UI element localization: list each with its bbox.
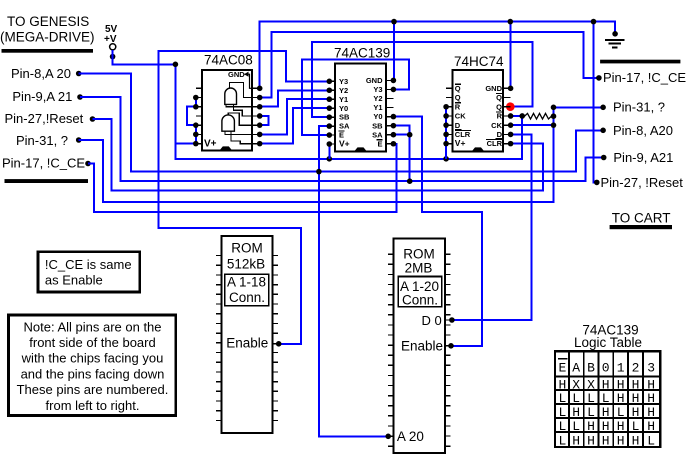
svg-text:H: H [572,433,580,448]
AC08 internal gate2 output wire [228,113,252,125]
wire 139 Y0a to AC08 gate2 inB [262,108,329,143]
svg-text:L: L [572,391,580,406]
node 139 left pin dot [327,141,333,147]
svg-text:X: X [587,377,595,392]
svg-text:Y0: Y0 [339,104,348,113]
svg-text:2MB: 2MB [405,261,433,276]
svg-text:H: H [647,419,655,434]
5V supply terminal circle [110,44,116,50]
node 139 left pin dot [327,87,333,93]
wire bus A20 from Pin-8 [79,74,601,172]
svg-text:R: R [455,102,461,111]
node 139 left pin dot [327,123,333,129]
svg-text:SA: SA [339,122,350,131]
svg-text:H: H [632,377,640,392]
AC08 notch [219,146,232,150]
AC08 internal gate1 inA wire [226,104,252,106]
svg-text:Pin-9, A21: Pin-9, A21 [613,150,673,165]
svg-text:74AC08: 74AC08 [204,53,253,68]
wire AC08 left rows5-7 tie [195,125,197,143]
svg-text:CK: CK [491,121,502,130]
svg-text:H: H [587,433,595,448]
wire 139 SAb join [393,134,409,136]
AC08 internal gate1 output wire [230,82,253,97]
wire 139 Ea from 139 Y3b [302,60,409,135]
wire Pin-31 to right label [554,106,601,108]
node AC08 left pin dot [193,122,199,128]
svg-text:Y0: Y0 [373,112,382,121]
svg-text:H: H [617,433,625,448]
svg-text:V+: V+ [455,138,466,148]
svg-text:E: E [558,360,566,375]
node junction SAb on SBb drop [407,132,413,138]
node AC08 right pin dot [257,86,263,92]
svg-text:front side of the board: front side of the board [29,335,155,350]
AND gate G2 [222,115,235,131]
AC08 internal gate1 inB wire [233,104,252,116]
svg-text:and the pins facing down: and the pins facing down [21,366,165,381]
svg-text:SB: SB [339,113,350,122]
node Pin-31 right dot [600,105,606,111]
svg-text:SB: SB [372,121,383,130]
node AC08 left pin dot [193,132,199,138]
svg-text:GND: GND [228,70,245,79]
74AC139 logic table [555,351,660,447]
ROM2MB D0 stub [445,319,451,321]
svg-text:H: H [572,405,580,420]
svg-text:D: D [455,121,461,130]
svg-text:74AC139: 74AC139 [334,46,390,61]
svg-text:D 0: D 0 [422,313,442,328]
node rail junction at 74AC139 V+ [327,156,333,162]
svg-text:Pin-27,!Reset: Pin-27,!Reset [5,111,84,126]
svg-text:H: H [602,433,610,448]
node ground bus junction cart reset [591,19,597,25]
svg-text:3: 3 [647,360,655,375]
wire bus Pin-31 net [79,107,554,202]
wire HC74 left tie to rail [445,107,447,159]
ground symbol [612,31,618,37]
wire 139 V+ to rail [328,144,330,159]
node HC74 right pin dot [508,141,514,147]
wire 5V drop to rail [113,50,523,159]
svg-text:H: H [617,377,625,392]
svg-text:Q: Q [455,84,461,93]
svg-text:with the chips facing you: with the chips facing you [21,351,164,366]
ROM2MB conn box [398,277,442,307]
node 139 left pin dot [327,114,333,120]
svg-text:Y1: Y1 [339,95,348,104]
svg-text:H: H [587,419,595,434]
svg-text:H: H [602,377,610,392]
node 139 left pin dot [327,96,333,102]
svg-text:512kB: 512kB [227,257,265,272]
node HC74 left pin dot [443,113,449,119]
node 5V T junction [173,62,179,68]
svg-text:from left to right.: from left to right. [46,398,140,413]
svg-text:CK: CK [455,112,466,121]
svg-text:SA: SA [372,130,383,139]
svg-text:Pin-9,A 21: Pin-9,A 21 [12,89,72,104]
svg-text:Y3: Y3 [373,85,382,94]
node AC08 right pin dot [257,95,263,101]
node AC08 right pin dot [257,141,263,147]
svg-text:+V: +V [104,34,117,45]
svg-text:H: H [632,391,640,406]
node AC08 left pin dot [193,141,199,147]
svg-text:L: L [558,405,566,420]
svg-text:A: A [572,360,580,375]
ROM512 conn box [225,274,269,305]
svg-text:H: H [632,405,640,420]
node AC08 right pin dot [257,132,263,138]
svg-text:Enable: Enable [226,336,268,351]
node rail junction at 74HC74 pins [443,156,449,162]
wire ground drop to HC74 GND [509,22,511,89]
svg-text:TO GENESIS: TO GENESIS [7,14,89,29]
wire 139 E2 stub [393,143,396,145]
svg-text:74HC74: 74HC74 [454,54,504,69]
AC08 internal gate2 inA wire [225,131,252,134]
node AC08 right pin dot [257,122,263,128]
node Pin-31 left dot [76,137,82,143]
node ROM2MB Enable dot [448,343,454,349]
svg-text:Y2: Y2 [373,94,382,103]
wire HC74 CK to Pin-31 net [513,124,554,126]
svg-text:as Enable: as Enable [45,273,103,288]
svg-text:(MEGA-DRIVE): (MEGA-DRIVE) [0,30,95,45]
node resistor left dot [519,113,525,119]
svg-text:V+: V+ [204,138,217,149]
wire HC74 R pullup stub [513,115,522,117]
wire ground bus [260,22,615,89]
svg-text:A 1-18: A 1-18 [227,275,266,290]
wire AC08 rows4-5 jumper [260,116,269,125]
wire 139 Y3a to ROM512 Enable [158,51,329,344]
wire AC08 left rows2-3 tie [195,98,197,107]
svg-text:V+: V+ [339,139,350,149]
svg-text:D: D [497,130,503,139]
wire 139 Y2a to AC08 gate1 inA [262,90,329,106]
svg-text:H: H [647,405,655,420]
svg-text:H: H [558,377,566,392]
node AC08 right pin dot [257,104,263,110]
note box !C_CE is same as Enable [38,252,140,292]
node 139 left pin dot [327,105,333,111]
svg-text:L: L [617,405,625,420]
AC08 GND leader arrow [245,74,253,88]
node HC74 right pin dot [508,122,514,128]
node HC74 right pin dot [508,113,514,119]
svg-text:H: H [632,433,640,448]
svg-text:Note: All pins are on the: Note: All pins are on the [23,320,161,335]
node ROM512 Enable dot [276,341,282,347]
svg-text:Enable: Enable [401,339,443,354]
wire ground drop to 139 GND [393,22,395,81]
wire ground drop to cart Pin-27 [594,22,595,183]
node AC08 right pin dot [257,113,263,119]
wire AC08 left rows3-5 detour [187,107,196,125]
AND gate G1 [225,88,237,104]
svg-text:2: 2 [632,360,640,375]
node Pin-31 net top dot [551,105,557,111]
svg-text:Y2: Y2 [339,86,348,95]
wire 5V branch to 74AC08 V+ [175,143,194,145]
node HC74 Q output red dot [506,102,515,111]
node Pin-27 left dot [90,116,96,122]
bar above cart pins [600,60,680,64]
svg-text:E: E [377,139,382,148]
bar under left pin list [5,179,89,183]
svg-text:L: L [558,391,566,406]
HC74 notch [472,147,485,151]
ROM512 Enable stub [272,343,278,345]
bar under TO GENESIS [2,49,94,53]
node Pin-9 right dot [601,155,607,161]
svg-text:L: L [587,391,595,406]
svg-text:Pin-17, !C_CE: Pin-17, !C_CE [2,156,85,171]
AC08 internal gate2 inB wire [231,131,252,143]
svg-text:Logic Table: Logic Table [574,335,642,350]
node 139 right pin dot [391,123,397,129]
svg-text:Pin-17, !C_CE: Pin-17, !C_CE [603,70,686,85]
node HC74 left pin dot [443,141,449,147]
node 139 right pin dot [391,114,397,120]
wire 139 SAa from bus A20 down to ROM2MB A20 [319,126,386,436]
node Pin-8 left dot [76,71,82,77]
svg-text:H: H [647,391,655,406]
svg-text:Y3: Y3 [339,77,348,86]
wire 139 Y1a to AC08 gate2 inA [262,99,329,134]
chip U5 ROM 2MB body and pins [393,239,445,453]
node HC74 left pin dot [443,132,449,138]
node HC74 left pin dot [443,122,449,128]
node Pin-8 right dot [600,128,606,134]
node ground bus junction HC74 [508,19,514,25]
svg-text:L: L [632,419,640,434]
wire bus A21 from Pin-9 [80,97,601,181]
node HC74 right pin dot [508,132,514,138]
svg-text:L: L [558,419,566,434]
svg-text:Pin-27, !Reset: Pin-27, !Reset [601,175,684,190]
svg-text:H: H [602,405,610,420]
svg-text:H: H [602,419,610,434]
svg-text:Pin-31, ?: Pin-31, ? [613,100,665,115]
svg-text:R: R [497,112,503,121]
node 139 right pin dot [391,132,397,138]
svg-text:ROM: ROM [231,241,263,256]
node 139 right pin dot [391,141,397,147]
svg-text:Pin-8,A 20: Pin-8,A 20 [11,66,71,81]
139 notch [354,147,367,151]
svg-text:L: L [558,433,566,448]
node ROM2MB D0 dot [449,317,455,323]
node AC08 left pin dot [193,95,199,101]
ROM2MB A20 stub [388,435,394,437]
wire bus !C_CE from Pin-17 to 139 E2 [88,144,396,212]
svg-text:CLR: CLR [487,139,503,148]
svg-text:Conn.: Conn. [402,293,438,308]
node ground bus junction 139 [391,19,397,25]
node 139 right pin dot [391,78,397,84]
wire 139 SBb to bus A21 [393,126,409,182]
bar under TO CART [610,225,672,229]
svg-text:GND: GND [366,76,383,85]
svg-text:H: H [647,377,655,392]
node HC74 right pin dot [508,86,514,92]
svg-text:L: L [602,391,610,406]
node 139 left pin dot [327,79,333,85]
resistor R1 zigzag [522,113,553,119]
wire AC08 gate1 out to cart !C_CE [260,32,597,98]
wire HC74 D to ROM2MB D0 [455,134,532,320]
node junction bus A20 at SAa drop [316,169,322,175]
svg-text:TO CART: TO CART [612,211,671,226]
svg-text:Y1: Y1 [373,103,382,112]
node resistor right dot [551,113,557,119]
chip U4 ROM 512kB body and pins [222,236,273,433]
node Pin-31 net CK dot [551,122,557,128]
ROM2MB Enable stub [445,345,451,347]
svg-text:Conn.: Conn. [229,290,265,305]
node ROM2MB A20 dot [385,434,391,440]
svg-text:A 20: A 20 [397,429,424,444]
svg-text:H: H [617,419,625,434]
svg-text:These pins are numbered.: These pins are numbered. [17,382,169,397]
svg-text:Q: Q [455,93,461,102]
node junction bus A21 [407,178,413,184]
svg-text:Q: Q [496,102,502,111]
node 139 right pin dot [391,87,397,93]
svg-text:H: H [617,391,625,406]
svg-text:ROM: ROM [403,246,435,261]
big note box [9,315,176,416]
svg-text:Q: Q [496,93,502,102]
svg-text:L: L [647,433,655,448]
svg-text:GND: GND [485,84,502,93]
node Pin-17 right dot [596,75,602,81]
wire bus !Reset from Pin-27 to HC74 CLR [93,119,544,190]
wire 139 SBa from HC74 Q [312,42,532,117]
svg-text:Pin-31, ?: Pin-31, ? [16,133,68,148]
svg-text:X: X [572,377,580,392]
node HC74 left pin dot [443,104,449,110]
wire 139 Y0b to ROM2MB Enable [393,117,482,346]
node Pin-27 right dot [594,180,600,186]
svg-text:Pin-8, A20: Pin-8, A20 [613,123,673,138]
node Pin-9 left dot [77,94,83,100]
node 139 left pin dot [327,132,333,138]
svg-text:B: B [587,360,595,375]
svg-text:L: L [572,419,580,434]
node AC08 left pin dot [193,104,199,110]
svg-text:!C_CE is same: !C_CE is same [45,257,132,272]
svg-text:L: L [587,405,595,420]
node Pin-17 left dot [85,161,91,167]
node 5V junction dot [110,54,116,60]
svg-text:1: 1 [617,360,625,375]
svg-text:0: 0 [602,360,610,375]
